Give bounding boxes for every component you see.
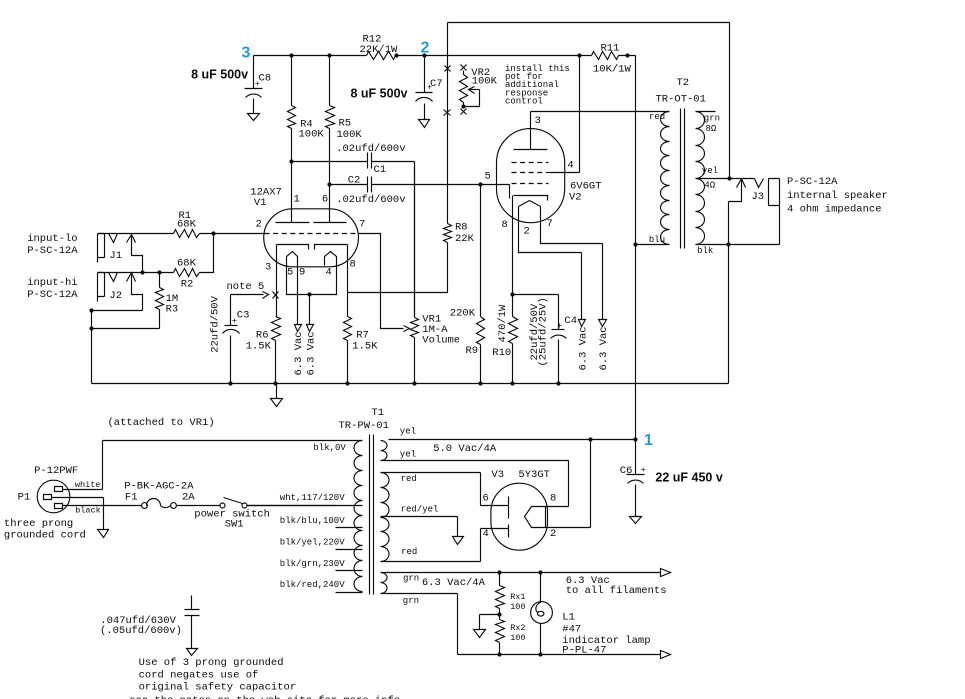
resistor R8 22K feedback: [348, 222, 475, 293]
wire V1 heater tap drop: [309, 295, 311, 325]
T1 5V winding: [381, 427, 497, 461]
svg-text:blk,0V: blk,0V: [313, 443, 346, 453]
jack J3 speaker: [729, 179, 780, 384]
svg-text:3: 3: [265, 262, 271, 274]
capacitor C2 .02ufd/600v: [330, 175, 481, 207]
svg-text:+: +: [427, 83, 432, 93]
speaker text: [787, 176, 888, 216]
svg-text:Use of 3 prong grounded: Use of 3 prong grounded: [139, 657, 284, 669]
note safety capacitor: [129, 657, 400, 699]
svg-text:6.3 Vac/4A: 6.3 Vac/4A: [422, 577, 486, 589]
svg-text:P-SC-12A: P-SC-12A: [27, 289, 78, 301]
svg-text:blk/grn,230V: blk/grn,230V: [280, 559, 345, 569]
svg-text:SW1: SW1: [225, 519, 244, 531]
svg-text:5Y3GT: 5Y3GT: [518, 469, 550, 481]
ground center tap: [453, 537, 464, 545]
svg-text:R2: R2: [181, 279, 194, 291]
svg-text:P-SC-12A: P-SC-12A: [27, 245, 78, 257]
T1 primary winding: [354, 441, 363, 592]
svg-text:68K: 68K: [177, 258, 197, 270]
svg-text:R11: R11: [601, 43, 620, 55]
svg-text:1.5K: 1.5K: [352, 341, 378, 353]
svg-text:see the notes on the web site: see the notes on the web site for more i…: [129, 695, 400, 699]
svg-text:white: white: [75, 480, 101, 490]
wire V2 cathode drop: [512, 196, 514, 295]
wire B+ node1 vertical: [635, 56, 637, 440]
svg-text:100: 100: [510, 633, 525, 643]
svg-text:C1: C1: [374, 164, 387, 176]
V1 grid dashed pins 2,7: [256, 219, 366, 234]
svg-text:yel: yel: [400, 450, 416, 460]
capacitor safety .047ufd/630V: [100, 596, 200, 649]
svg-text:input-lo: input-lo: [27, 233, 77, 245]
V1 heater right: [325, 252, 337, 266]
resistor R6 1.5K: [246, 317, 281, 384]
svg-text:68K: 68K: [177, 219, 197, 231]
T1 blk/grn 230V stub: [280, 559, 363, 571]
svg-text:22ufd/50V: 22ufd/50V: [210, 295, 222, 352]
V2 plate pin 3: [514, 112, 548, 150]
svg-text:red/yel: red/yel: [401, 505, 439, 515]
junction R7 gnd: [345, 381, 349, 385]
V2 cathode pin 8: [502, 196, 548, 232]
T2 primary winding: [649, 112, 670, 246]
arrow 6.3Vac V1 tap: [305, 325, 317, 376]
V3 pin 6 plate: [481, 493, 509, 506]
T2 blk lead: [696, 245, 780, 257]
wire black neutral: [63, 506, 142, 516]
V3 pin 4 plate: [481, 528, 509, 540]
svg-text:22K/1W: 22K/1W: [360, 44, 399, 56]
wire J1 grid pin2: [98, 233, 264, 235]
svg-text:cord negates use of: cord negates use of: [139, 669, 259, 681]
junction R9 gnd: [478, 381, 482, 385]
svg-text:4 ohm impedance: 4 ohm impedance: [787, 204, 882, 216]
svg-text:yel: yel: [702, 166, 718, 176]
junction C4 gnd: [556, 381, 560, 385]
wire V1 pin7 to VR1 wiper: [359, 234, 404, 329]
switch SW1: [194, 498, 270, 531]
resistor R10 470/1W: [492, 295, 517, 384]
T2 secondary winding: [696, 112, 705, 245]
junction R5 top: [327, 53, 331, 57]
svg-text:6.3 Vac: 6.3 Vac: [577, 326, 589, 370]
cut mark upper left: [445, 66, 451, 72]
wire 6.3Vac filament line: [381, 572, 661, 574]
svg-text:three prong: three prong: [4, 518, 73, 530]
resistor R11 10K/1W: [592, 43, 632, 76]
svg-text:blu: blu: [649, 235, 665, 245]
resistor R1 68K: [174, 210, 200, 238]
V1 heater left: [287, 252, 298, 263]
T1 blk/red 240V stub: [280, 580, 363, 593]
svg-text:8: 8: [502, 219, 508, 231]
T1 wht 117/120V lead: [247, 493, 363, 506]
svg-text:T2: T2: [677, 77, 690, 89]
cut mark VR2 bottom: [461, 109, 467, 115]
svg-text:10K/1W: 10K/1W: [593, 64, 632, 76]
potentiometer VR1 1M-A Volume: [404, 162, 461, 384]
tube V2 6V6GT envelope: [497, 129, 602, 223]
svg-text:6.3 Vac: 6.3 Vac: [305, 331, 317, 375]
note install this pot: [505, 64, 570, 106]
svg-text:R5: R5: [339, 118, 352, 130]
wire V2 plate to T2 red: [531, 111, 670, 113]
wire ground bus: [92, 383, 729, 385]
plug P1 P-12PWF: [4, 465, 86, 542]
svg-text:220K: 220K: [450, 308, 476, 320]
svg-text:.02ufd/600v: .02ufd/600v: [336, 194, 405, 206]
svg-text:C3: C3: [237, 310, 250, 322]
svg-text:2: 2: [524, 226, 530, 238]
arrow filament return: [661, 651, 671, 659]
svg-text:grn: grn: [403, 596, 419, 606]
svg-text:6: 6: [483, 493, 489, 505]
svg-text:4: 4: [326, 267, 332, 279]
junction R12 right: [394, 53, 398, 57]
svg-text:C8: C8: [259, 73, 272, 85]
capacitor C8 8uF 500v: [191, 56, 271, 114]
svg-text:(.05ufd/600v): (.05ufd/600v): [100, 625, 182, 637]
svg-text:(attached to VR1): (attached to VR1): [108, 417, 215, 429]
ground C8: [248, 114, 260, 121]
wire safety ground prong: [52, 498, 104, 530]
svg-text:internal speaker: internal speaker: [787, 190, 888, 202]
svg-text:black: black: [75, 506, 101, 516]
ground bus arrow: [271, 384, 283, 407]
svg-text:V3: V3: [491, 469, 504, 481]
wire V1 cathode pin8 drop: [347, 245, 349, 317]
jack J1 input-lo: [27, 233, 142, 272]
transformer T1 labels: [339, 407, 389, 432]
wire white hot: [63, 441, 103, 491]
V2 heater tent: [519, 201, 541, 207]
svg-text:P1: P1: [18, 492, 31, 504]
svg-text:F1: F1: [125, 492, 138, 504]
svg-text:P-12PWF: P-12PWF: [34, 465, 78, 477]
T1 blk 0V lead / white wire: [103, 441, 363, 454]
svg-text:8 uF 500v: 8 uF 500v: [191, 68, 248, 82]
arrow 6.3Vac V1 pin9: [293, 325, 305, 376]
svg-text:2: 2: [550, 528, 556, 540]
svg-text:2: 2: [256, 219, 262, 231]
V1 cathode pin 8: [315, 245, 356, 271]
svg-text:4Ω: 4Ω: [704, 181, 715, 191]
svg-text:red: red: [401, 547, 417, 557]
svg-text:R3: R3: [166, 304, 179, 316]
V2 screen grid dashed pin 4: [512, 56, 580, 173]
svg-text:red: red: [401, 474, 417, 484]
capacitor C3 22ufd/50V: [210, 295, 250, 384]
wire 6.3Vac return: [381, 594, 661, 655]
svg-text:+: +: [232, 316, 237, 326]
ground safety cap: [187, 649, 198, 656]
wire jack ground returns: [89, 308, 159, 383]
ground plug: [98, 530, 109, 538]
svg-text:8: 8: [550, 493, 556, 505]
junction R3 top: [157, 270, 161, 274]
svg-text:to all filaments: to all filaments: [566, 585, 667, 597]
svg-text:V2: V2: [569, 192, 582, 204]
cut mark VR2 top: [461, 65, 467, 71]
T1 red/yel center tap to ground: [381, 517, 458, 537]
junction Rx2 bottom: [497, 652, 501, 656]
svg-text:6.3 Vac: 6.3 Vac: [598, 326, 610, 370]
capacitor C4 22ufd/50V: [513, 295, 578, 384]
V1 cathode pin 3: [265, 245, 309, 274]
T1 red lead 2 to V3 pin 4: [381, 529, 481, 562]
svg-text:TR-PW-01: TR-PW-01: [339, 420, 389, 432]
svg-text:wht,117/120V: wht,117/120V: [280, 493, 345, 503]
svg-text:blk/yel,220V: blk/yel,220V: [280, 538, 345, 548]
ground Rx divider: [474, 630, 486, 638]
junction V2 cathode node: [510, 292, 514, 296]
svg-text:6.3 Vac: 6.3 Vac: [293, 331, 305, 375]
wire V2 heater pin 2: [519, 207, 582, 320]
cut mark note5: [273, 292, 279, 299]
svg-text:grn: grn: [704, 114, 720, 124]
svg-text:V1: V1: [254, 197, 267, 209]
svg-text:+: +: [255, 79, 260, 89]
wire V2 heater pin 7: [541, 207, 603, 320]
wire Rx ground branch: [480, 615, 500, 630]
svg-text:blk/red,240V: blk/red,240V: [280, 580, 345, 590]
T2 grn 8ohm stub: [696, 112, 721, 135]
T1 HV winding: [381, 473, 439, 562]
svg-text:8 uF 500v: 8 uF 500v: [351, 87, 408, 101]
svg-text:L1: L1: [562, 612, 575, 624]
svg-text:R9: R9: [466, 345, 479, 357]
svg-text:3: 3: [242, 45, 251, 62]
svg-text:J2: J2: [109, 290, 122, 302]
svg-text:Rx1: Rx1: [510, 592, 525, 602]
svg-text:4: 4: [483, 528, 489, 540]
svg-text:grn: grn: [403, 574, 419, 584]
T1 blk/yel 220V stub: [280, 538, 363, 550]
svg-text:original safety capacitor: original safety capacitor: [139, 682, 297, 694]
T1 yel lead 2 to V3 pin 8: [381, 460, 569, 462]
junction R11 right: [625, 53, 629, 57]
svg-text:100: 100: [510, 602, 525, 612]
junction VR1 gnd: [412, 381, 416, 385]
ground C6: [630, 517, 642, 524]
svg-text:C2: C2: [348, 175, 361, 187]
svg-text:P-SC-12A: P-SC-12A: [787, 176, 838, 188]
T1 red lead to V3 pin 6: [381, 473, 481, 506]
junction R6 gnd: [273, 381, 277, 385]
capacitor C1 .02ufd/600v: [292, 143, 415, 318]
wire fuse to switch: [177, 505, 220, 507]
wire V1 heater pin 9 drop: [297, 263, 299, 325]
junction yel tap: [727, 176, 731, 180]
svg-text:470/1W: 470/1W: [497, 304, 509, 343]
text attached to VR1: [108, 417, 215, 429]
junction J1 switch on J2 line: [140, 270, 144, 274]
junction Rx1 top: [497, 570, 501, 574]
svg-text:7: 7: [359, 219, 365, 231]
T1 6.3V winding: [381, 573, 486, 607]
ground C7: [419, 120, 430, 128]
svg-text:4: 4: [567, 160, 573, 172]
T1 blk/blu 100V stub: [280, 516, 363, 528]
svg-text:100K: 100K: [337, 129, 363, 141]
svg-text:100K: 100K: [472, 76, 498, 88]
svg-text:P-PL-47: P-PL-47: [562, 645, 606, 657]
svg-text:5: 5: [485, 171, 491, 183]
svg-text:TR-OT-01: TR-OT-01: [656, 94, 706, 106]
V3 plates bar: [508, 497, 510, 538]
V3 filament cathode: [525, 507, 546, 528]
tube V3 5Y3GT envelope: [491, 469, 550, 550]
V3 pin 8 lead: [546, 461, 569, 507]
V2 beam plates dashed: [512, 162, 549, 164]
svg-text:(25ufd/25V): (25ufd/25V): [538, 297, 550, 366]
resistor R2 68K: [174, 234, 214, 291]
svg-text:1: 1: [644, 432, 653, 449]
wire V1 cathode pin3 drop: [276, 245, 278, 317]
svg-text:1: 1: [294, 194, 300, 206]
wire J2 line: [98, 272, 174, 274]
svg-text:8Ω: 8Ω: [706, 124, 717, 134]
capacitor C7 8uF 500v: [351, 56, 443, 120]
V1 pin labels 5 9 4: [287, 267, 332, 279]
junction V3 pin2 output: [588, 437, 592, 441]
junction R10 gnd: [510, 381, 514, 385]
resistor R4 100K: [288, 56, 325, 223]
T1 core: [370, 435, 374, 595]
wire node1 horizontal: [389, 439, 636, 441]
resistor R3 1M: [156, 273, 179, 329]
svg-text:5: 5: [287, 267, 293, 279]
resistor R7 1.5K: [344, 317, 379, 384]
svg-text:.02ufd/600v: .02ufd/600v: [336, 143, 405, 155]
svg-text:C4: C4: [564, 315, 577, 327]
arrow 6.3Vac V2 pin7: [598, 320, 610, 371]
resistor R12 22K/1W: [360, 34, 399, 60]
junction L1 bottom: [538, 652, 542, 656]
svg-text:Volume: Volume: [422, 335, 460, 347]
svg-text:1.5K: 1.5K: [246, 341, 272, 353]
transformer T2 labels: [656, 77, 706, 106]
T2 yel 4ohm tap: [696, 166, 755, 191]
svg-text:R10: R10: [492, 347, 511, 359]
V3 pin 2 lead: [546, 440, 591, 541]
resistor Rx1 100: [496, 573, 526, 615]
wire feedback loop top: [448, 23, 730, 224]
svg-text:#47: #47: [562, 624, 581, 636]
junction blk tap: [726, 242, 730, 246]
svg-text:8: 8: [350, 259, 356, 271]
svg-text:red: red: [649, 112, 665, 122]
svg-text:note 5: note 5: [227, 281, 265, 293]
svg-text:control: control: [505, 96, 543, 106]
wire switch to T1: [247, 505, 336, 507]
svg-text:C6: C6: [620, 465, 633, 477]
capacitor C6 22uF 450v: [620, 440, 723, 517]
wire V1 heater pins 5-4 rail: [287, 263, 337, 297]
svg-text:5.0 Vac/4A: 5.0 Vac/4A: [433, 443, 497, 455]
V1 plate pin 1: [276, 194, 310, 223]
svg-text:3: 3: [535, 115, 541, 127]
arrow 6.3Vac V2 pin2: [577, 320, 589, 371]
svg-text:7: 7: [547, 218, 553, 230]
potentiometer VR2 100K: [460, 67, 498, 109]
fuse F1 P-BK-AGC-2A: [124, 481, 195, 509]
junction blu lead: [633, 242, 669, 246]
lamp L1 #47: [531, 573, 651, 657]
svg-text:J1: J1: [109, 250, 122, 262]
resistor R9 220K: [450, 185, 485, 384]
node 3: [242, 45, 251, 62]
junction C1 tap: [289, 159, 293, 163]
jack J2 input-hi: [27, 273, 142, 311]
note 5 arrow: [227, 281, 269, 299]
svg-text:+: +: [641, 465, 646, 475]
cut mark lower left: [444, 110, 451, 116]
arrow filament line: [566, 569, 671, 598]
junction screen tap: [577, 53, 581, 57]
svg-text:input-hi: input-hi: [27, 277, 77, 289]
T2 core: [681, 109, 685, 249]
junction C3 gnd: [228, 381, 232, 385]
junction grid node: [211, 231, 215, 235]
resistor R5 100K: [326, 56, 363, 223]
junction R9 grid node: [478, 182, 482, 186]
svg-text:100K: 100K: [299, 129, 325, 141]
svg-text:blk/blu,100V: blk/blu,100V: [280, 516, 345, 526]
tube V1 12AX7 envelope: [250, 187, 358, 267]
svg-text:2A: 2A: [182, 492, 195, 504]
svg-text:blk: blk: [697, 246, 713, 256]
junction R4 top: [289, 53, 293, 57]
resistor Rx2 100: [496, 615, 526, 655]
svg-text:yel: yel: [400, 427, 416, 437]
svg-text:+: +: [557, 321, 562, 331]
junction C2 tap: [327, 182, 331, 186]
svg-text:R8: R8: [455, 222, 468, 234]
svg-text:J3: J3: [752, 191, 765, 203]
svg-text:Rx2: Rx2: [510, 623, 525, 633]
junction Rx divider: [497, 612, 501, 616]
wire B+ rail node3-node2-node1 top: [254, 55, 636, 57]
wire V2 grid pin 5: [481, 171, 510, 199]
node 1: [633, 432, 653, 449]
V1 plate pin 6: [314, 194, 347, 223]
svg-text:6: 6: [322, 194, 328, 206]
svg-text:9: 9: [299, 267, 305, 279]
svg-text:22 uF 450 v: 22 uF 450 v: [655, 471, 722, 485]
V2 control grid dashed: [512, 183, 549, 185]
svg-text:T1: T1: [372, 407, 385, 419]
junction L1 top: [538, 570, 542, 574]
svg-text:grounded cord: grounded cord: [4, 530, 86, 542]
node 2: [421, 40, 430, 58]
svg-text:22K: 22K: [455, 233, 475, 245]
